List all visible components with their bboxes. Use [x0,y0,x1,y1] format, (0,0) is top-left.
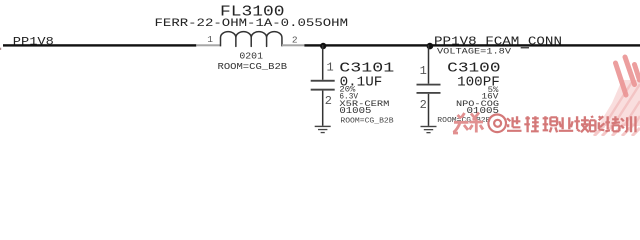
watermark corner hatching [594,124,640,136]
业 [559,117,573,131]
技 [574,116,588,132]
能 [590,116,604,131]
svg-text:1: 1 [420,64,427,78]
svg-text:2: 2 [420,98,427,112]
维 [524,116,538,132]
svg-text:01005: 01005 [339,105,371,116]
ground symbol at C3100 [421,126,437,134]
junction node at C3101 [320,43,326,49]
svg-text:ROOM=CG_B2B: ROOM=CG_B2B [218,61,288,72]
训 [621,116,635,132]
svg-text:C3100: C3100 [447,61,500,77]
watermark logo pink band lower right [598,80,640,126]
wire net PP1V8 left segment [3,44,196,46]
@ [488,115,506,133]
wire C3100 top [428,45,430,84]
svg-text:FERR-22-OHM-1A-0.055OHM: FERR-22-OHM-1A-0.055OHM [155,18,349,30]
watermark logo wing strokes [616,57,640,95]
svg-text:0201: 0201 [239,51,263,61]
svg-text:1: 1 [207,34,213,45]
junction node at C3100 [427,43,434,50]
wire C3101 bottom [322,91,324,126]
wire stub FL3100 pin 2 [282,44,305,46]
ground symbol at C3101 [315,126,331,134]
迅 [507,116,521,131]
wire C3100 bottom [428,94,430,126]
inductor FL3100 body [221,32,282,47]
stray mark left edge [0,48,1,50]
watermark text @迅维职业技能培训 (solid) [488,115,506,133]
培 [605,116,619,131]
watermark text 头条 (outline style) [453,113,483,134]
wire stub FL3100 pin 1 [196,44,220,46]
职 [543,116,557,132]
capacitor C3100 bottom plate [417,92,441,94]
svg-text:1: 1 [327,60,334,74]
svg-text:VOLTAGE=1.8V: VOLTAGE=1.8V [437,47,512,57]
capacitor C3101 bottom plate [311,89,335,91]
svg-text:2: 2 [292,34,298,45]
underscore of net label visible below wire [521,47,529,48]
capacitor C3100 top plate [417,84,441,86]
watermark logo band streaks [604,82,640,126]
wire net PP1V8_FCAM_CONN right segment [304,44,640,46]
svg-text:ROOM=CG_B2B: ROOM=CG_B2B [340,118,394,126]
svg-text:C3101: C3101 [339,61,394,77]
wire C3101 top [322,45,324,80]
svg-text:2: 2 [325,94,332,108]
capacitor C3101 top plate [311,80,335,82]
